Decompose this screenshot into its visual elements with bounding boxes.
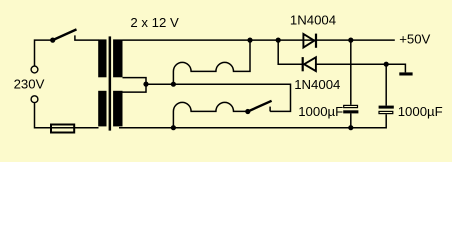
- switch S1 pivot dot: [50, 38, 55, 43]
- wire: switch S2 contact tick: [269, 107, 271, 112]
- transformer T1 core: [109, 36, 112, 130]
- wire: through fuse F1 to transformer primary: [50, 127, 99, 129]
- diode D1 cathode bar: [315, 34, 317, 48]
- node: D2 row tap on rail: [276, 38, 281, 43]
- wire: center tap rail: [146, 84, 291, 111]
- wire: terminal L to switch S1: [35, 40, 53, 66]
- switch S2 blade: [248, 101, 272, 112]
- svg-text:1N4004: 1N4004: [294, 77, 340, 92]
- capacitor C2 positive plate (hollow): [379, 111, 393, 113]
- transformer T1 secondary winding bar: [113, 39, 122, 126]
- wire: diode D2 to ground junction: [316, 63, 386, 65]
- node: C1 bottom on rail: [348, 125, 353, 130]
- terminal circle top 230V: [31, 66, 38, 73]
- svg-text:1000µF: 1000µF: [298, 104, 343, 119]
- node: center tap junction: [143, 82, 148, 87]
- wire: secondary winding top exit to center tap: [123, 78, 147, 93]
- node: L1 to center rail junction: [171, 82, 176, 87]
- wire: rail tap down to diode D2 row: [278, 40, 302, 64]
- switch S2 pivot dot: [245, 109, 250, 114]
- ground symbol: [399, 72, 412, 75]
- diode D2 1N4004 triangle: [304, 57, 316, 71]
- capacitor C1 positive plate (hollow): [344, 105, 358, 107]
- svg-text:2 x 12 V: 2 x 12 V: [130, 15, 179, 30]
- capacitor C2 negative plate (solid): [379, 106, 394, 109]
- node: L1 top to rail junction: [247, 38, 252, 43]
- diode D2 cathode bar: [302, 57, 304, 71]
- wire: bottom rail from transformer to C2: [119, 114, 386, 128]
- wire: top rail from secondary to +50V: [123, 39, 395, 41]
- inductor L2: [173, 102, 247, 127]
- wire: ground stub: [386, 64, 405, 72]
- wire: terminal N down to fuse: [35, 103, 51, 128]
- switch S1 blade: [53, 29, 77, 40]
- wire: switch S1 contact to transformer primary: [75, 35, 99, 40]
- svg-text:230V: 230V: [14, 76, 45, 91]
- wire: C1 bottom lead: [350, 113, 352, 127]
- diode D1 1N4004 triangle: [303, 34, 314, 48]
- fuse F1: [51, 125, 74, 133]
- node: L2 to bottom rail junction: [171, 125, 176, 130]
- wire: C1 top lead: [350, 40, 352, 105]
- node: ground junction: [384, 62, 389, 67]
- svg-text:+50V: +50V: [399, 31, 430, 46]
- node: C1 top on rail: [348, 38, 353, 43]
- capacitor C1 negative plate (solid): [343, 110, 358, 113]
- svg-text:1000µF: 1000µF: [398, 104, 443, 119]
- inductor L1: [173, 40, 250, 84]
- transformer T1 primary winding bar: [98, 39, 106, 126]
- terminal circle bottom 230V: [31, 96, 38, 103]
- svg-text:1N4004: 1N4004: [290, 12, 336, 27]
- wire: C2 top lead: [385, 64, 387, 105]
